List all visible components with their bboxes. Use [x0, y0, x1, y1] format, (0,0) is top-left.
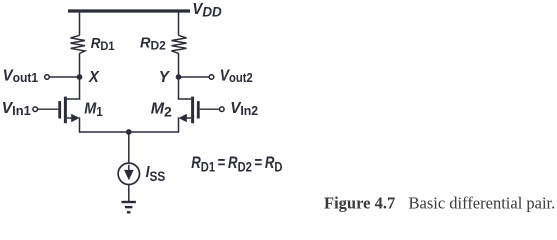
node X junction	[77, 74, 83, 80]
svg-text:RD1 = RD2 = RD: RD1 = RD2 = RD	[191, 154, 282, 175]
wire Vout1 terminal to node X	[49, 76, 79, 78]
terminal Vin2	[220, 107, 225, 112]
transistor M2 label	[151, 100, 172, 119]
svg-text:RD2: RD2	[140, 36, 166, 53]
resistor RD1	[71, 35, 86, 53]
wire RD1 to M1 drain	[79, 53, 81, 99]
wire M2 gate to Vin2 terminal	[200, 108, 220, 110]
svg-text:M1: M1	[84, 100, 103, 120]
wire right branch from rail to RD2	[178, 11, 180, 36]
value label RD1	[91, 34, 115, 53]
svg-text:Vout2: Vout2	[220, 66, 253, 85]
caption	[324, 194, 555, 213]
wire common source rail	[80, 131, 179, 133]
transistor M1	[58, 97, 80, 133]
terminal Vin1	[33, 107, 38, 112]
terminal Vout1	[45, 75, 50, 80]
ground	[122, 202, 136, 212]
resistor RD2	[172, 35, 187, 53]
node Vin1 label	[2, 100, 31, 118]
wire left branch from rail to RD1	[79, 11, 81, 36]
svg-text:VDD: VDD	[192, 1, 221, 20]
svg-text:M2: M2	[151, 100, 172, 119]
svg-text:ISS: ISS	[146, 163, 166, 184]
wire node Y to Vout2 terminal	[179, 76, 210, 78]
svg-text:Figure 4.7: Figure 4.7	[324, 194, 395, 213]
terminal Vout2	[209, 75, 214, 80]
svg-text:Vout1: Vout1	[3, 67, 39, 85]
equation RD1 = RD2 = RD	[191, 154, 282, 175]
node Vout1 label	[3, 67, 39, 85]
svg-text:RD1: RD1	[91, 34, 115, 53]
transistor M2	[178, 97, 200, 133]
wire RD2 to M2 drain	[178, 53, 180, 99]
node X label	[88, 68, 99, 86]
svg-text:VIn1: VIn1	[2, 100, 31, 118]
tail node junction	[126, 129, 132, 135]
node Vin2 label	[230, 100, 258, 119]
VDD rail	[68, 9, 190, 12]
svg-text:X: X	[88, 68, 99, 86]
node Vout2 label	[220, 66, 253, 85]
node VDD label	[192, 1, 221, 20]
wire Vin1 terminal to M1 gate	[38, 108, 59, 110]
value label RD2	[140, 36, 166, 53]
current source ISS	[118, 163, 139, 184]
current source ISS label	[146, 163, 166, 184]
transistor M1 label	[84, 100, 103, 120]
node Y label	[159, 68, 171, 85]
node Y junction	[176, 74, 182, 80]
svg-text:Y: Y	[159, 68, 171, 85]
wire tail node to current source	[128, 132, 130, 163]
wire current source to ground	[128, 185, 130, 202]
svg-text:VIn2: VIn2	[230, 100, 258, 119]
svg-text:Basic differential pair.: Basic differential pair.	[409, 194, 556, 213]
